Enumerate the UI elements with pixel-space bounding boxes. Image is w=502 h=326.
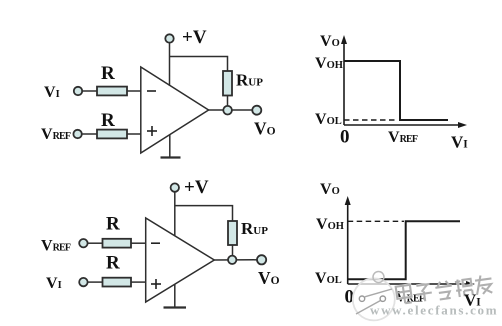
label VOL (bottom graph)	[315, 270, 342, 287]
svg-text:VREF: VREF	[41, 126, 71, 143]
label VI (bottom circuit input)	[46, 275, 62, 292]
label VOH (top graph)	[315, 55, 343, 72]
wire RUP to output node	[227, 96, 229, 107]
svg-text:VOH: VOH	[316, 216, 344, 233]
svg-text:VO: VO	[320, 181, 340, 198]
svg-text:VREF: VREF	[41, 238, 71, 255]
watermark logo ring 3	[373, 272, 384, 283]
label VOL (top graph)	[315, 111, 342, 128]
wire +V branch to RUP	[170, 57, 228, 72]
label RUP (bottom circuit)	[241, 219, 268, 238]
label R (R1)	[101, 63, 115, 84]
wire VREF terminal to R2	[82, 133, 97, 135]
watermark chinese characters	[396, 274, 494, 304]
transfer curve (top graph)	[344, 61, 448, 120]
label VI (bottom graph x-axis)	[464, 291, 481, 310]
label 0 (bottom graph origin)	[345, 287, 355, 308]
label VO (top graph y-axis)	[320, 33, 340, 50]
ground (top circuit)	[161, 135, 181, 158]
dashed VOH level (bottom graph)	[348, 220, 404, 222]
resistor R1	[97, 87, 127, 96]
transfer curve (bottom graph)	[348, 221, 460, 279]
svg-text:+V: +V	[182, 27, 207, 48]
label 0 (top graph origin)	[340, 127, 350, 148]
label VO (bottom circuit)	[258, 268, 280, 288]
wire +V to op-amp top edge (bottom circuit)	[174, 192, 176, 236]
terminal VREF	[73, 130, 81, 138]
op-amp U1	[141, 67, 209, 153]
resistor RUP (top circuit)	[223, 71, 232, 96]
resistor R4	[103, 278, 132, 287]
watermark url text	[370, 303, 498, 318]
terminal VREF (bottom)	[79, 239, 87, 247]
svg-text:R: R	[101, 63, 115, 84]
wire VI terminal to R1	[82, 90, 97, 92]
wire VI terminal to R4	[88, 281, 103, 283]
wire +V to op-amp top edge	[169, 43, 171, 86]
y-axis (bottom graph)	[345, 196, 351, 284]
minus sign U1 inverting input	[147, 90, 156, 92]
wire +V branch to RUP (bottom circuit)	[175, 206, 233, 221]
label +V (top circuit)	[182, 27, 207, 48]
label VO (bottom graph y-axis)	[320, 181, 340, 198]
wire op-amp output to node (bottom circuit)	[214, 259, 257, 261]
terminal +V (top circuit)	[165, 34, 173, 42]
svg-text:VREF: VREF	[388, 129, 418, 146]
resistor R2	[97, 130, 127, 139]
svg-text:RUP: RUP	[241, 219, 268, 238]
label RUP (top circuit)	[236, 71, 263, 90]
svg-text:VI: VI	[451, 133, 468, 152]
terminal VO (bottom circuit)	[257, 255, 266, 264]
label VI (top circuit input)	[44, 84, 60, 101]
dashed VOL level (top graph)	[344, 119, 398, 121]
svg-text:+V: +V	[184, 177, 209, 198]
wire R2 to op-amp non-inverting input	[127, 133, 141, 135]
svg-text:VI: VI	[46, 275, 62, 292]
wire RUP to output node (bottom circuit)	[232, 245, 234, 256]
svg-text:RUP: RUP	[236, 71, 263, 90]
plus sign U2 non-inverting input	[151, 279, 161, 289]
wire op-amp output to node	[209, 109, 253, 111]
watermark logo upper diagonal line	[365, 289, 392, 297]
label R (R3)	[106, 214, 120, 235]
svg-text:VO: VO	[320, 33, 340, 50]
svg-text:R: R	[106, 214, 120, 235]
label R (R4)	[106, 253, 120, 274]
minus sign U2 inverting input	[151, 242, 160, 244]
terminal +V (bottom circuit)	[171, 183, 179, 191]
node output (bottom circuit)	[228, 256, 236, 264]
svg-text:R: R	[101, 110, 115, 131]
watermark logo big circle	[353, 278, 395, 320]
label VI (top graph x-axis)	[451, 133, 468, 152]
wire R1 to op-amp inverting input	[127, 90, 141, 92]
svg-text:VOH: VOH	[315, 55, 343, 72]
label R (R2)	[101, 110, 115, 131]
watermark logo ring 1	[359, 296, 364, 301]
terminal VI (bottom)	[79, 278, 87, 286]
watermark logo ring 2	[380, 296, 385, 301]
terminal VI	[74, 87, 82, 95]
node output (top circuit)	[223, 106, 232, 115]
ground (bottom circuit)	[164, 284, 187, 308]
label VREF (bottom circuit input)	[41, 238, 71, 255]
wire R3 to op-amp inverting input	[131, 242, 146, 244]
wire R4 to op-amp non-inverting input	[131, 281, 146, 283]
svg-text:VI: VI	[44, 84, 60, 101]
resistor RUP (bottom circuit)	[228, 221, 237, 245]
svg-text:VOL: VOL	[315, 111, 342, 128]
plus sign U1 non-inverting input	[147, 126, 157, 136]
svg-text:0: 0	[340, 127, 350, 148]
op-amp U2	[146, 218, 215, 302]
resistor R3	[103, 239, 132, 248]
svg-text:VO: VO	[254, 119, 276, 139]
label VREF (top graph x-axis)	[388, 129, 418, 146]
label VO (top circuit)	[254, 119, 276, 139]
svg-text:VO: VO	[258, 268, 280, 288]
label VREF (bottom graph x-axis)	[395, 289, 425, 306]
label VOH (bottom graph)	[316, 216, 344, 233]
svg-text:R: R	[106, 253, 120, 274]
label VREF (top circuit)	[41, 126, 71, 143]
terminal VO (top circuit)	[252, 106, 261, 115]
y-axis (top graph)	[341, 35, 347, 125]
label +V (bottom circuit)	[184, 177, 209, 198]
x-axis (top graph)	[344, 122, 467, 128]
wire VREF terminal to R3	[88, 242, 103, 244]
svg-text:VOL: VOL	[315, 270, 342, 287]
x-axis (bottom graph)	[348, 281, 475, 287]
watermark logo lower diagonal line	[356, 301, 381, 315]
